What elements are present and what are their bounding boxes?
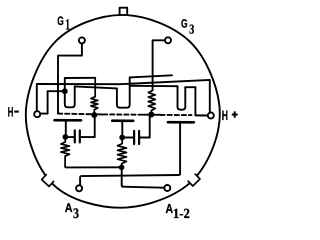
anode plate bar 2 [112, 119, 133, 122]
wire serpentine dip 2 [117, 77, 130, 107]
capacitor C2 plates [134, 131, 139, 144]
resistor R1 [91, 78, 98, 113]
wire L1 to node D3 [65, 166, 121, 167]
terminal H+ [208, 113, 214, 119]
wire D3 down to A1-2 [122, 170, 164, 188]
stem plate2 to node D2 [121, 121, 123, 135]
svg-text:1: 1 [65, 17, 70, 34]
dashed gate layer line [58, 114, 192, 116]
resistor R2 [148, 90, 155, 112]
package can outline [26, 15, 220, 208]
terminal A3 [76, 185, 82, 191]
svg-text:1-2: 1-2 [173, 207, 190, 222]
junction dot D1 [63, 134, 69, 140]
wire H- top riser to top bus [36, 84, 38, 110]
top index tab [120, 8, 128, 14]
solid gate segment at R1 node [91, 113, 103, 115]
wire gate line C [65, 78, 95, 89]
wire serpentine dip 1 [65, 86, 75, 107]
resistor R3 below D2 [118, 140, 127, 165]
svg-text:H: H [8, 105, 14, 120]
wire serpentine top bar [185, 86, 195, 88]
terminal G1 [79, 37, 85, 43]
capacitor C1 left lead [65, 136, 73, 138]
junction dot R1 on gate line [91, 112, 97, 118]
wire G1 lead down-left-down to dashed gate line [58, 44, 82, 113]
stem plate3 down [179, 123, 181, 174]
wire serpentine run A2 right [130, 85, 178, 87]
capacitor C1 right lead up to gate node [81, 115, 95, 137]
wire serpentine run A2 [75, 86, 117, 88]
lower-left case tab [42, 175, 54, 187]
capacitor C1 plates [75, 130, 80, 142]
wire H- right lead up to serpentine [41, 91, 62, 113]
wire gate line E [130, 75, 172, 77]
solid gate segment to H+ [195, 114, 207, 116]
anode plate bar 3 [168, 121, 194, 124]
junction dot D3 [119, 165, 125, 171]
terminal G3 [165, 37, 171, 43]
anode plate bar 1 [55, 119, 81, 122]
svg-text:G: G [57, 14, 64, 28]
wire serpentine dip 3 [178, 86, 186, 110]
svg-text:3: 3 [189, 22, 194, 37]
terminal H- [34, 111, 40, 117]
resistor Ra below D1 [61, 139, 70, 166]
junction dot serpentine/gate tap [62, 88, 68, 94]
solid gate segment at R2 node [144, 114, 161, 116]
wire serpentine end leg to H+ [195, 87, 207, 115]
lower-right case tab [188, 174, 200, 186]
junction dot R2 on gate line [148, 112, 154, 118]
stem plate1 to node D1 [65, 121, 67, 134]
svg-text:A: A [65, 201, 73, 215]
terminal A1-2 [164, 185, 170, 191]
capacitor C2 right lead up to gate node R2 [140, 115, 151, 138]
junction dot D2 [119, 135, 125, 141]
wire top bus A1 across to H+ [37, 80, 210, 112]
svg-text:G: G [181, 17, 188, 31]
capacitor C2 left lead [122, 137, 133, 139]
svg-text:3: 3 [73, 206, 79, 222]
wire G3 lead left and down [153, 40, 165, 90]
svg-text:H: H [222, 108, 228, 123]
wire L2 to A3 [80, 174, 180, 185]
